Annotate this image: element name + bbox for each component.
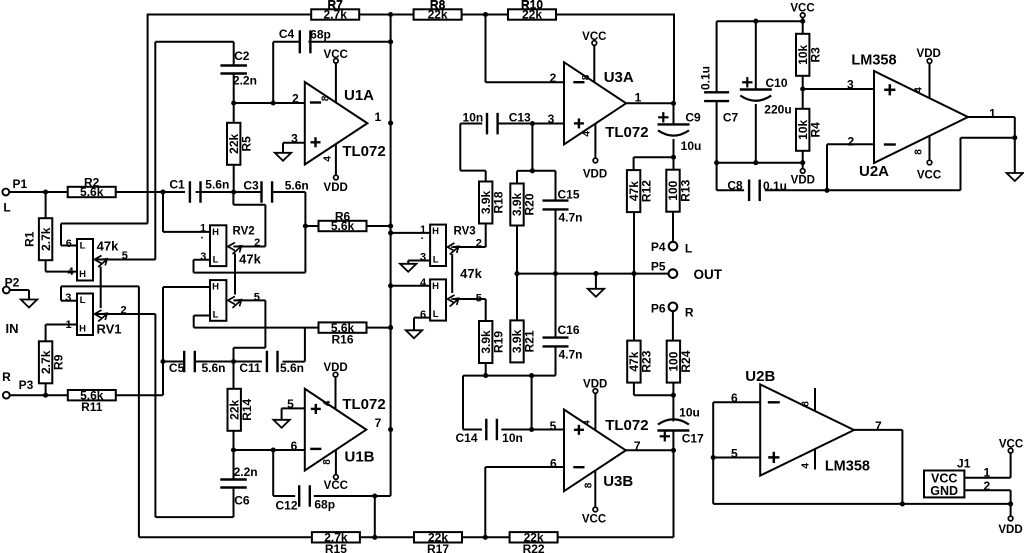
- svg-text:R: R: [685, 305, 694, 319]
- svg-text:6: 6: [420, 309, 426, 321]
- svg-text:47k: 47k: [97, 239, 119, 254]
- svg-text:220u: 220u: [764, 102, 791, 116]
- svg-text:L: L: [685, 241, 692, 255]
- svg-text:3: 3: [548, 112, 555, 126]
- svg-text:H: H: [432, 281, 439, 292]
- svg-text:C9: C9: [685, 110, 701, 124]
- svg-text:R2: R2: [84, 175, 100, 189]
- svg-text:5: 5: [254, 291, 260, 303]
- svg-text:P5: P5: [651, 260, 666, 274]
- svg-text:1: 1: [984, 466, 991, 480]
- svg-text:C1: C1: [169, 177, 185, 191]
- svg-text:R1: R1: [22, 231, 36, 247]
- svg-text:47k: 47k: [460, 266, 482, 281]
- svg-text:1: 1: [635, 90, 642, 104]
- svg-text:RV1: RV1: [96, 322, 121, 337]
- svg-text:R18: R18: [491, 191, 505, 213]
- svg-text:1: 1: [374, 110, 381, 124]
- svg-text:U1A: U1A: [344, 87, 374, 104]
- svg-text:U1B: U1B: [344, 449, 374, 466]
- svg-text:3: 3: [420, 251, 426, 263]
- svg-text:5: 5: [287, 397, 294, 411]
- svg-text:R7: R7: [328, 0, 344, 12]
- svg-text:8: 8: [800, 401, 811, 407]
- svg-text:L: L: [80, 241, 86, 252]
- svg-text:5: 5: [550, 419, 557, 433]
- svg-text:3: 3: [847, 78, 854, 92]
- svg-text:H: H: [79, 324, 86, 335]
- svg-text:6: 6: [731, 391, 738, 405]
- svg-text:C11: C11: [239, 361, 261, 375]
- svg-text:3: 3: [291, 131, 298, 145]
- svg-text:TL072: TL072: [605, 417, 648, 434]
- svg-text:VDD: VDD: [998, 524, 1022, 536]
- svg-text:2.2n: 2.2n: [233, 73, 257, 87]
- svg-text:LM358: LM358: [851, 52, 896, 68]
- svg-text:VCC: VCC: [582, 31, 606, 43]
- svg-text:L: L: [80, 295, 86, 306]
- svg-text:OUT: OUT: [693, 267, 722, 282]
- svg-text:5.6n: 5.6n: [201, 361, 225, 375]
- svg-text:R6: R6: [335, 209, 351, 223]
- svg-text:VDD: VDD: [324, 182, 348, 194]
- svg-text:C2: C2: [234, 49, 250, 63]
- svg-text:H: H: [432, 226, 439, 237]
- svg-text:2: 2: [847, 135, 854, 149]
- svg-text:7: 7: [875, 419, 882, 433]
- svg-text:RV2: RV2: [233, 226, 255, 238]
- svg-text:10u: 10u: [681, 139, 702, 153]
- svg-text:VCC: VCC: [582, 513, 606, 525]
- svg-text:7: 7: [634, 439, 641, 453]
- svg-text:GND: GND: [930, 484, 958, 498]
- svg-text:R8: R8: [430, 0, 446, 12]
- svg-text:R24: R24: [679, 350, 693, 372]
- svg-text:H: H: [212, 227, 219, 238]
- svg-text:6: 6: [66, 238, 72, 250]
- svg-text:VDD: VDD: [917, 48, 941, 60]
- svg-text:2: 2: [292, 92, 299, 106]
- svg-text:U2A: U2A: [859, 163, 889, 180]
- svg-text:R12: R12: [639, 180, 653, 202]
- svg-text:H: H: [212, 282, 219, 293]
- svg-text:3: 3: [65, 292, 71, 304]
- svg-text:68p: 68p: [310, 28, 331, 42]
- svg-text:C4: C4: [279, 27, 295, 41]
- svg-text:U2B: U2B: [745, 368, 775, 385]
- svg-text:C10: C10: [766, 76, 788, 90]
- svg-text:4.7n: 4.7n: [559, 210, 583, 224]
- svg-text:C15: C15: [558, 188, 580, 202]
- svg-text:8: 8: [914, 149, 925, 155]
- svg-text:10n: 10n: [463, 111, 484, 125]
- svg-text:R15: R15: [325, 542, 347, 553]
- svg-text:C5: C5: [169, 361, 185, 375]
- svg-text:U3A: U3A: [604, 69, 634, 86]
- svg-text:1: 1: [65, 319, 71, 331]
- svg-text:VDD: VDD: [583, 169, 607, 181]
- svg-text:C17: C17: [682, 431, 704, 445]
- svg-text:IN: IN: [6, 321, 19, 336]
- svg-text:5.6n: 5.6n: [280, 361, 304, 375]
- svg-text:P4: P4: [651, 240, 666, 254]
- svg-text:VDD: VDD: [323, 362, 347, 374]
- svg-text:R22: R22: [523, 542, 545, 553]
- svg-text:R: R: [2, 370, 11, 384]
- svg-text:5.6n: 5.6n: [205, 177, 229, 191]
- svg-text:VDD: VDD: [583, 378, 607, 390]
- svg-text:6: 6: [550, 456, 557, 470]
- svg-text:TL072: TL072: [605, 124, 648, 141]
- svg-text:68p: 68p: [314, 498, 335, 512]
- svg-text:10n: 10n: [502, 431, 523, 445]
- svg-text:R23: R23: [640, 350, 654, 372]
- svg-text:C13: C13: [509, 111, 531, 125]
- svg-text:P6: P6: [651, 302, 666, 316]
- svg-text:U3B: U3B: [603, 473, 633, 490]
- svg-text:C6: C6: [234, 494, 250, 508]
- svg-text:VCC: VCC: [917, 169, 941, 181]
- svg-text:C8: C8: [727, 178, 743, 192]
- svg-text:47k: 47k: [239, 252, 261, 267]
- svg-text:L: L: [433, 255, 439, 266]
- svg-text:R14: R14: [240, 398, 254, 420]
- svg-text:RV3: RV3: [454, 226, 476, 238]
- svg-text:R9: R9: [51, 354, 65, 370]
- svg-text:R20: R20: [523, 193, 537, 215]
- svg-text:2: 2: [254, 237, 260, 249]
- svg-text:R17: R17: [427, 542, 449, 553]
- svg-text:8: 8: [322, 459, 333, 465]
- svg-text:VCC: VCC: [324, 480, 348, 492]
- svg-text:·: ·: [421, 233, 425, 245]
- svg-text:2: 2: [984, 479, 991, 493]
- svg-text:4: 4: [322, 400, 333, 406]
- svg-text:5.6n: 5.6n: [285, 179, 309, 193]
- svg-text:8: 8: [584, 482, 595, 488]
- svg-text:2: 2: [476, 237, 482, 249]
- svg-text:6: 6: [291, 439, 298, 453]
- svg-text:4: 4: [67, 266, 74, 278]
- svg-text:0.1u: 0.1u: [763, 179, 787, 193]
- svg-text:5: 5: [476, 293, 482, 305]
- svg-text:8: 8: [581, 74, 592, 80]
- svg-text:C16: C16: [558, 323, 580, 337]
- svg-text:3: 3: [200, 251, 206, 263]
- svg-text:P2: P2: [5, 276, 20, 290]
- svg-text:R11: R11: [81, 400, 103, 414]
- svg-text:VCC: VCC: [999, 439, 1023, 451]
- svg-text:VDD: VDD: [791, 174, 815, 186]
- svg-text:7: 7: [375, 416, 382, 430]
- svg-text:C12: C12: [275, 499, 297, 513]
- svg-text:4: 4: [323, 156, 334, 162]
- svg-text:LM358: LM358: [825, 459, 870, 475]
- svg-text:4: 4: [420, 277, 427, 289]
- svg-text:C7: C7: [723, 110, 739, 124]
- svg-text:R16: R16: [331, 332, 353, 346]
- svg-text:4: 4: [582, 131, 593, 137]
- svg-text:2.7k: 2.7k: [39, 227, 53, 251]
- svg-text:L: L: [213, 309, 219, 320]
- svg-text:4: 4: [582, 420, 593, 426]
- svg-text:C14: C14: [455, 431, 477, 445]
- svg-text:4: 4: [800, 463, 811, 469]
- svg-text:5: 5: [122, 250, 128, 262]
- svg-text:4: 4: [914, 87, 925, 93]
- svg-text:P3: P3: [19, 378, 34, 392]
- svg-text:R10: R10: [521, 0, 543, 12]
- svg-text:L: L: [3, 201, 10, 215]
- svg-text:R5: R5: [239, 136, 253, 152]
- svg-text:L: L: [433, 309, 439, 320]
- svg-text:10u: 10u: [679, 406, 700, 420]
- svg-text:VCC: VCC: [790, 3, 814, 15]
- svg-text:TL072: TL072: [342, 396, 385, 413]
- svg-text:VCC: VCC: [324, 49, 348, 61]
- svg-text:2.2n: 2.2n: [234, 465, 258, 479]
- svg-text:P1: P1: [12, 177, 27, 191]
- svg-text:8: 8: [321, 95, 332, 101]
- svg-text:R19: R19: [491, 331, 505, 353]
- svg-text:R4: R4: [808, 122, 822, 138]
- svg-text:0.1u: 0.1u: [698, 66, 712, 90]
- svg-text:R3: R3: [808, 47, 822, 63]
- svg-text:L: L: [213, 255, 219, 266]
- svg-text:2: 2: [120, 305, 126, 317]
- svg-text:4.7n: 4.7n: [559, 347, 583, 361]
- svg-text:·: ·: [200, 233, 204, 245]
- svg-text:R21: R21: [523, 330, 537, 352]
- svg-text:J1: J1: [957, 456, 971, 470]
- svg-text:TL072: TL072: [342, 143, 385, 160]
- svg-text:H: H: [79, 269, 86, 280]
- svg-text:1: 1: [989, 107, 996, 121]
- svg-text:2: 2: [550, 71, 557, 85]
- svg-text:R13: R13: [679, 179, 693, 201]
- svg-text:C3: C3: [243, 179, 259, 193]
- svg-text:5: 5: [731, 447, 738, 461]
